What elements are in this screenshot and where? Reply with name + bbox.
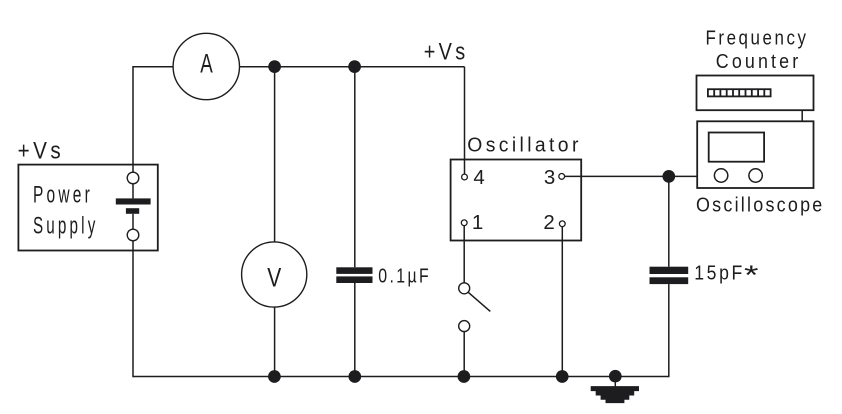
wire: counter to oscilloscope connector bbox=[801, 110, 803, 121]
node: junction top of 0.1uF branch bbox=[348, 60, 361, 73]
svg-text:Power: Power bbox=[33, 182, 93, 209]
capacitor C2 plate top bbox=[650, 267, 689, 274]
frequency counter display segments bbox=[708, 89, 771, 96]
svg-text:*: * bbox=[744, 260, 759, 290]
pin 1 terminal bbox=[461, 220, 467, 226]
oscilloscope knob left bbox=[714, 169, 727, 182]
oscilloscope knob right bbox=[749, 169, 762, 182]
battery BT1 long plate bbox=[116, 198, 151, 204]
svg-text:Oscillator: Oscillator bbox=[467, 134, 582, 156]
ammeter A1 bbox=[173, 33, 239, 99]
oscilloscope screen bbox=[709, 133, 764, 162]
wire: 0.1uF branch lower bbox=[354, 283, 356, 377]
node: switch to bus junction bbox=[458, 370, 471, 383]
wire: power supply down to ground bus bbox=[132, 241, 134, 377]
node: ground junction bbox=[609, 370, 622, 383]
ground symbol bbox=[591, 386, 639, 403]
capacitor C1 plate bottom bbox=[336, 276, 372, 283]
svg-text:Counter: Counter bbox=[716, 51, 802, 73]
node: pin 2 to bus junction bbox=[556, 370, 569, 383]
voltmeter V1 bbox=[242, 242, 307, 307]
node: junction top of voltmeter branch bbox=[268, 60, 281, 73]
svg-text:0.1µF: 0.1µF bbox=[378, 266, 431, 288]
wire: switch to bus bbox=[463, 332, 465, 377]
pin 2 terminal bbox=[559, 221, 565, 227]
oscillator U1 box bbox=[451, 160, 582, 241]
power supply PS box bbox=[18, 165, 157, 251]
svg-text:Oscilloscope: Oscilloscope bbox=[696, 194, 825, 216]
wire: +Vs drop to oscillator pin 4 bbox=[464, 67, 466, 174]
switch S1 top contact bbox=[459, 283, 470, 294]
svg-text:1: 1 bbox=[472, 211, 483, 234]
frequency counter box bbox=[697, 76, 814, 111]
svg-text:3: 3 bbox=[544, 166, 555, 189]
node: 0.1uF to bus junction bbox=[348, 370, 361, 383]
oscilloscope box bbox=[697, 121, 813, 188]
node: voltmeter to bus junction bbox=[268, 370, 281, 383]
wire: pin 1 down to switch bbox=[463, 226, 465, 283]
svg-text:+Vs: +Vs bbox=[18, 138, 65, 165]
wire: bottom ground bus bbox=[133, 376, 669, 378]
svg-text:A: A bbox=[200, 49, 213, 79]
terminal: power supply + bbox=[127, 172, 139, 184]
svg-text:15pF: 15pF bbox=[694, 263, 745, 285]
switch S1 blade bbox=[468, 292, 490, 311]
svg-text:V: V bbox=[267, 262, 281, 292]
switch S1 bottom contact bbox=[459, 321, 470, 332]
svg-text:Frequency: Frequency bbox=[706, 28, 809, 50]
capacitor C1 plate top bbox=[336, 267, 372, 274]
wire: voltmeter branch upper bbox=[274, 67, 276, 242]
wire: voltmeter branch lower bbox=[274, 307, 276, 376]
wire: terminal to battery plate bbox=[132, 184, 134, 199]
wire: battery plate to terminal bbox=[132, 214, 134, 229]
svg-text:4: 4 bbox=[473, 166, 484, 189]
node: junction to 15pF branch bbox=[662, 170, 675, 183]
pin 4 terminal bbox=[462, 174, 468, 180]
pin 3 terminal bbox=[559, 174, 565, 180]
capacitor C2 plate bottom bbox=[650, 277, 689, 284]
svg-text:Supply: Supply bbox=[33, 212, 99, 239]
wire: top rail from power supply to ammeter bbox=[133, 67, 173, 173]
wire: top rail from ammeter to +Vs corner bbox=[240, 66, 465, 68]
wire: pin 2 down to bus bbox=[561, 227, 563, 377]
wire: 15pF branch lower to bus corner bbox=[668, 284, 670, 377]
wire: 15pF branch upper bbox=[668, 176, 670, 266]
svg-text:+Vs: +Vs bbox=[424, 39, 469, 66]
battery BT1 short plate bbox=[126, 208, 139, 214]
wire: ground stem bbox=[614, 380, 616, 387]
wire: pin 3 to oscilloscope bbox=[565, 175, 697, 177]
svg-text:2: 2 bbox=[543, 211, 554, 234]
wire: 0.1uF branch upper bbox=[354, 67, 356, 268]
terminal: power supply - bbox=[127, 229, 139, 241]
